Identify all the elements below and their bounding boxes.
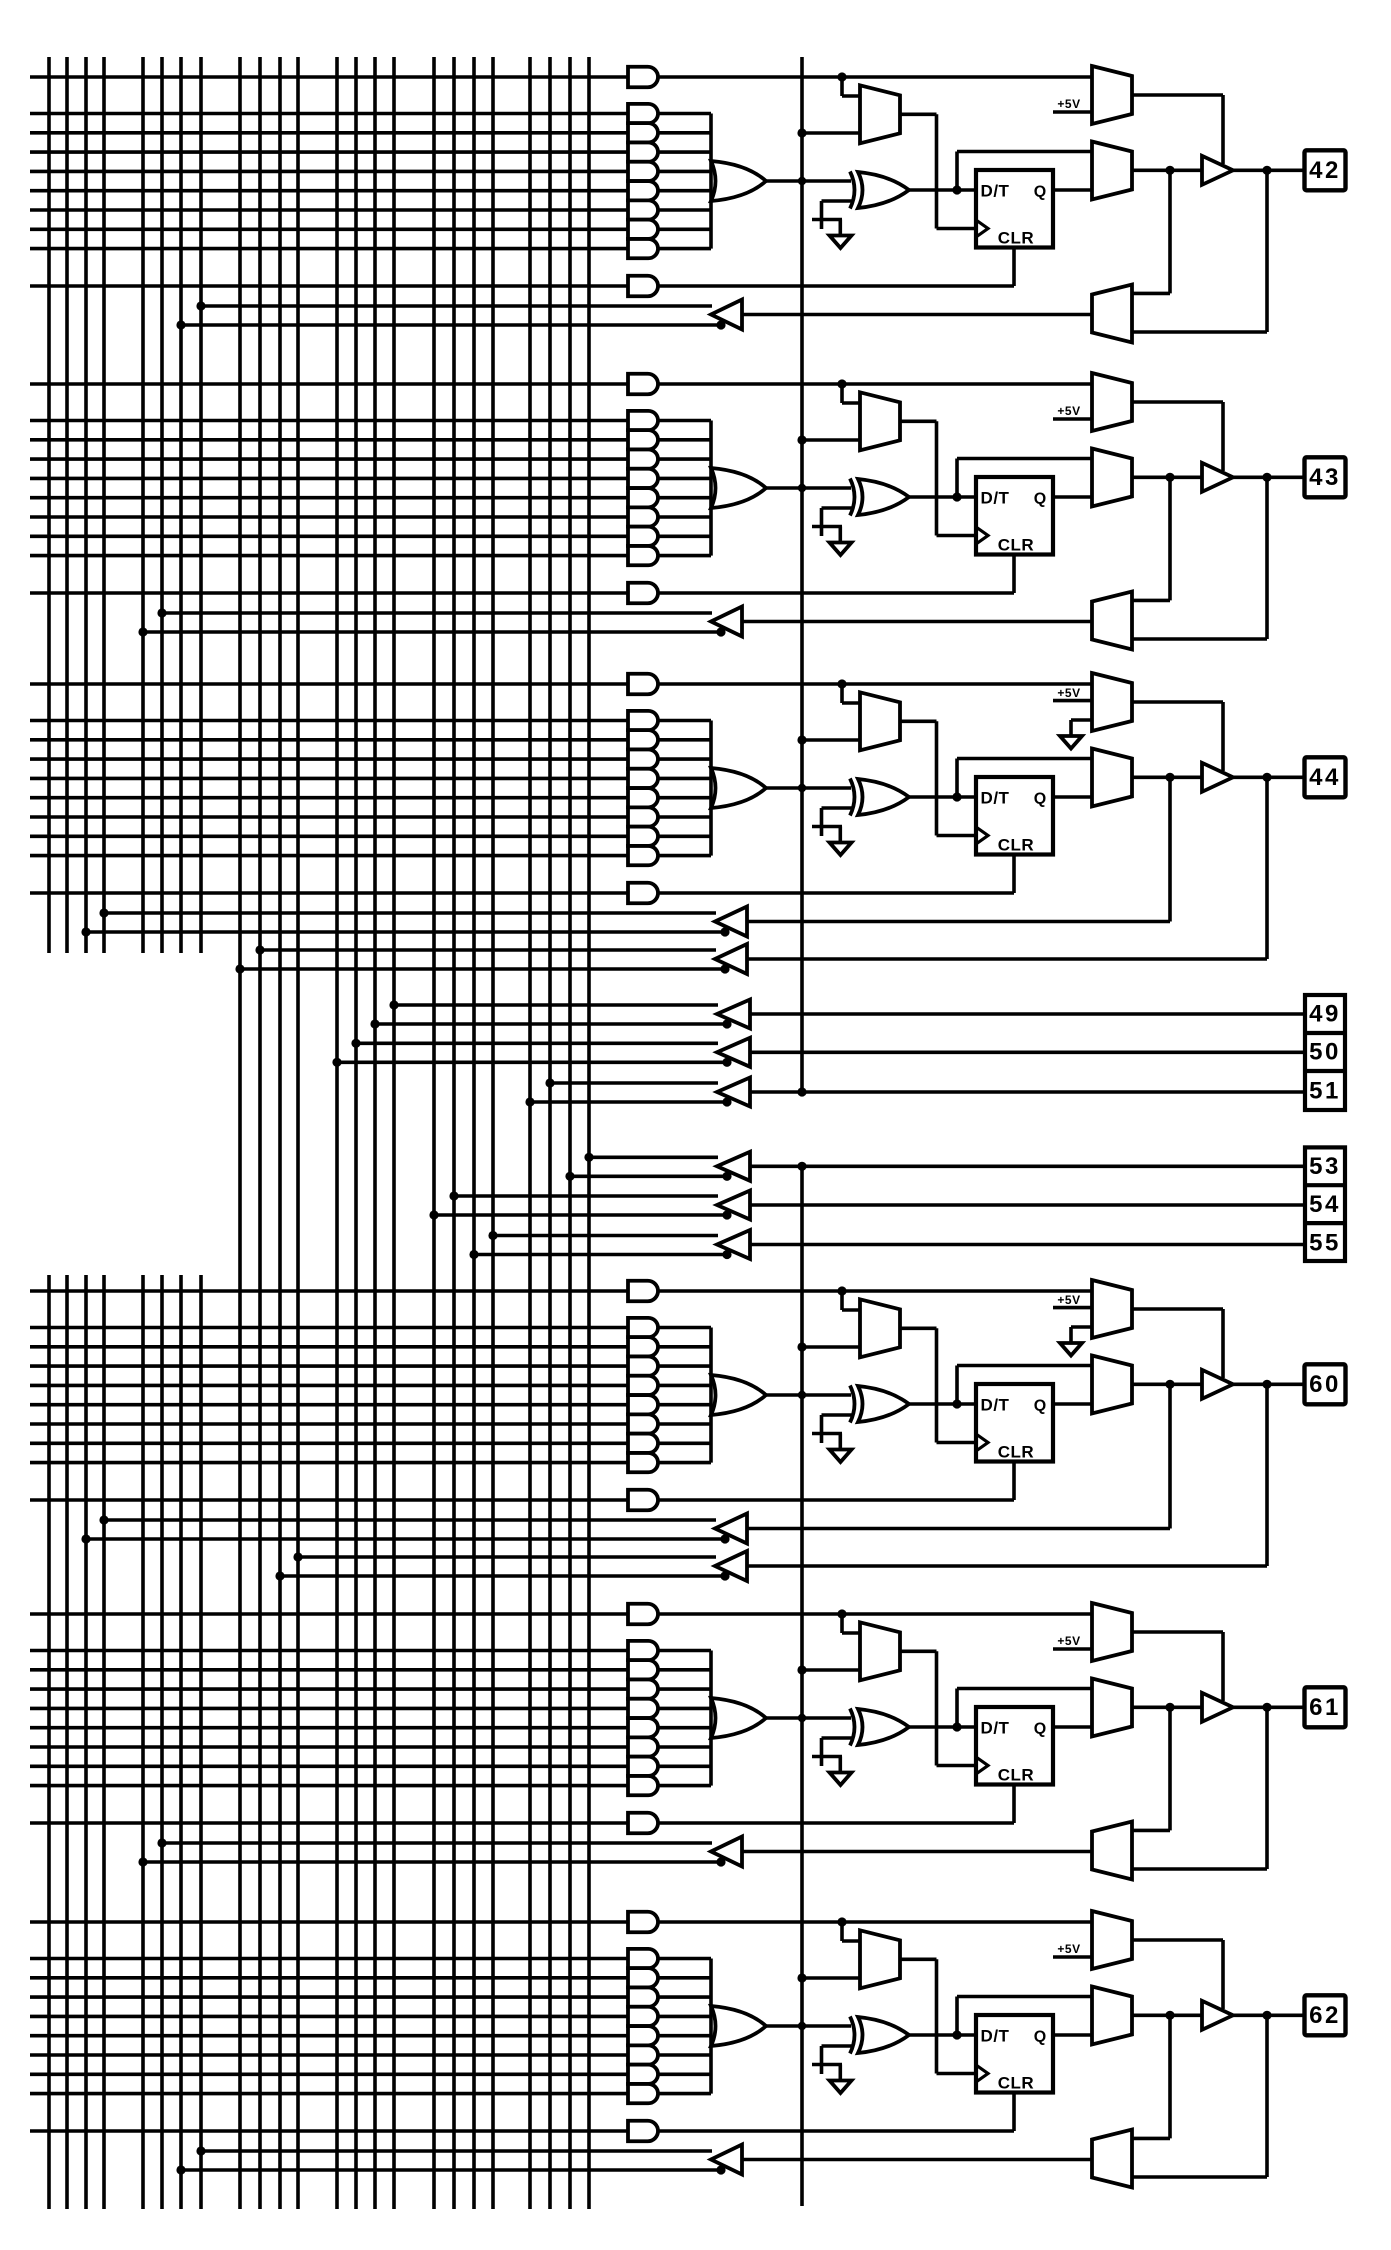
wire OR output to XOR (pin 44) <box>766 786 851 790</box>
wire product term row 4 (pin 61) <box>30 1707 628 1711</box>
array input column line x=86 (lower segment) <box>84 1275 88 2209</box>
svg-text:50: 50 <box>1309 1039 1341 1066</box>
input buffer (pin 54) <box>717 1191 750 1220</box>
wire Q output to output mux (pin 62) <box>1053 2033 1092 2037</box>
node clock bus tap (pin 60) <box>797 1342 806 1351</box>
wire product term row 5 (pin 62) <box>30 2034 628 2038</box>
node clock bus tap (pin 61) <box>797 1665 806 1674</box>
wire XOR output to D/T input (pin 44) <box>909 795 976 799</box>
wire clock bus to clock mux input (pin 62) <box>802 1976 860 1980</box>
clock mux (pin 61) <box>860 1622 900 1680</box>
feedback select mux (pin 61) <box>1092 1822 1132 1880</box>
pin box 42 <box>1305 150 1346 190</box>
svg-text:42: 42 <box>1309 157 1341 184</box>
XOR gate polarity (pin 42) <box>858 172 909 208</box>
array input column line x=356 <box>354 57 358 2209</box>
wire product term row 1 (pin 44) <box>30 719 628 723</box>
wire pin feedback complement row to column x=240 (pin 44) <box>240 967 727 971</box>
register feedback buffer (pin 60) <box>715 1514 747 1544</box>
wire clock mux output to flip-flop clock (pin 61) <box>900 1650 937 1654</box>
wire feedback complement row to column x=143 (pin 61) <box>143 1860 723 1864</box>
svg-text:53: 53 <box>1309 1153 1341 1180</box>
node clock bus driven by pin 51 <box>797 1087 806 1096</box>
wire clock bus to clock mux input (pin 61) <box>802 1668 860 1672</box>
wire clear term to CLR input (pin 62) <box>658 2129 1014 2133</box>
wire product term row 5 (pin 61) <box>30 1726 628 1730</box>
svg-text:+5V: +5V <box>1057 97 1080 111</box>
wire OE product term row (pin 62) <box>30 1920 628 1924</box>
wire product term row 7 (pin 42) <box>30 228 628 232</box>
wire AND output 2 to collector (pin 43) <box>658 438 711 442</box>
AND gate stack product terms 1-8 (pin 42) <box>628 104 658 123</box>
wire async clear row (pin 42) <box>30 284 628 288</box>
wire OE mux to buffer enable (pin 62) <box>1132 1938 1223 1942</box>
wire input pin 49 to buffer <box>750 1012 1304 1016</box>
node feedback branch (pin 60) <box>1165 1380 1174 1389</box>
wire OE-row branch to clock mux input (pin 44) <box>840 684 844 703</box>
wire AND output 2 to collector (pin 42) <box>658 131 711 135</box>
wire OE mux to buffer enable (pin 44) <box>1132 700 1223 704</box>
svg-text:60: 60 <box>1309 1371 1341 1398</box>
OR gate (pin 61) <box>711 1698 766 1738</box>
flip-flop U60 D/T register (pin 60) <box>976 1384 1053 1462</box>
input buffer (pin 51) <box>717 1078 750 1107</box>
svg-text:43: 43 <box>1309 464 1341 491</box>
OR gate (pin 44) <box>711 768 766 808</box>
wire product term row 2 (pin 61) <box>30 1668 628 1672</box>
wire input pin 55 to buffer <box>750 1243 1304 1247</box>
wire product term row 6 (pin 42) <box>30 208 628 212</box>
wire AND output 8 to collector (pin 42) <box>658 247 711 251</box>
feedback select mux (pin 42) <box>1092 285 1132 343</box>
wire buffer to pin (pin 62) <box>1233 2014 1304 2018</box>
wire feedback mux to feedback buffer (pin 43) <box>742 620 1092 624</box>
svg-text:Q: Q <box>1034 791 1046 808</box>
wire buffer to pin (pin 43) <box>1233 475 1304 479</box>
node pin feedback branch (pin 43) <box>1262 473 1271 482</box>
AND gate OE product term (pin 61) <box>628 1604 658 1625</box>
svg-text:CLR: CLR <box>998 229 1034 248</box>
output select mux (pin 60) <box>1092 1356 1132 1414</box>
output select mux (pin 43) <box>1092 449 1132 507</box>
svg-text:+5V: +5V <box>1057 1942 1080 1956</box>
svg-text:54: 54 <box>1309 1191 1341 1218</box>
svg-text:Q: Q <box>1034 491 1046 508</box>
ground option at OE mux (pin 60) <box>1071 1325 1092 1329</box>
+5V supply to OE mux (pin 42) <box>1053 110 1092 114</box>
node clock bus tap (pin 42) <box>797 128 806 137</box>
wire feedback true row to column x=201 (pin 42) <box>201 304 712 308</box>
wire product term row 5 (pin 42) <box>30 189 628 193</box>
XOR gate polarity (pin 62) <box>858 2017 909 2053</box>
array input column line x=49 (lower segment) <box>47 1275 51 2209</box>
ground symbol at XOR input (pin 62) <box>830 2081 852 2094</box>
svg-text:62: 62 <box>1309 2002 1341 2029</box>
wire clock mux output to flip-flop clock (pin 62) <box>900 1958 937 1962</box>
wire feedback true row to column x=201 (pin 62) <box>201 2149 712 2153</box>
wire async clear row (pin 60) <box>30 1498 628 1502</box>
flip-flop U42 D/T register (pin 42) <box>976 170 1053 248</box>
pin box group 49/50/51 <box>1305 995 1345 1110</box>
AND gate stack product terms 1-8 (pin 44) <box>628 711 658 730</box>
wire AND output 4 to collector (pin 44) <box>658 777 711 781</box>
flip-flop U44 D/T register (pin 44) <box>976 777 1053 855</box>
wire input true row to column x=493 (pin 55) <box>493 1234 718 1238</box>
wire output mux to tri-state buffer (pin 42) <box>1132 169 1202 173</box>
wire output mux to tri-state buffer (pin 44) <box>1132 775 1202 779</box>
wire internal feedback to feedback mux (pin 43) <box>1168 477 1172 600</box>
wire product term row 6 (pin 62) <box>30 2053 628 2057</box>
svg-text:CLR: CLR <box>998 1443 1034 1462</box>
wire OE product term row (pin 42) <box>30 75 628 79</box>
wire feedback true row to column x=162 (pin 43) <box>162 611 712 615</box>
wire OE-row branch to clock mux input (pin 60) <box>840 1291 844 1310</box>
output select mux (pin 44) <box>1092 749 1132 807</box>
wire AND output 4 to collector (pin 42) <box>658 170 711 174</box>
svg-text:CLR: CLR <box>998 2074 1034 2093</box>
wire output mux to tri-state buffer (pin 61) <box>1132 1706 1202 1710</box>
wire AND output 8 to collector (pin 62) <box>658 2092 711 2096</box>
node OR row at clock bus (pin 62) <box>798 2022 806 2030</box>
wire AND output 6 to collector (pin 44) <box>658 815 711 819</box>
wire OE term to output-enable mux (pin 43) <box>658 382 1092 386</box>
wire input complement row to column x=530 (pin 51) <box>530 1100 729 1104</box>
wire OE term to output-enable mux (pin 62) <box>658 1920 1092 1924</box>
wire input true row to column x=394 (pin 49) <box>394 1003 718 1007</box>
wire AND output 7 to collector (pin 60) <box>658 1442 711 1446</box>
output enable mux (pin 60) <box>1092 1280 1132 1338</box>
wire OE-row branch to clock mux input (pin 61) <box>840 1614 844 1633</box>
clock wedge of flip-flop (pin 44) <box>976 827 988 844</box>
svg-text:D/T: D/T <box>981 2027 1010 2046</box>
wire product term row 1 (pin 60) <box>30 1326 628 1330</box>
wire product term row 1 (pin 43) <box>30 419 628 423</box>
array input column line x=67 (lower segment) <box>65 1275 69 2209</box>
wire clear term to CLR input (pin 43) <box>658 591 1014 595</box>
wire pin feedback to feedback mux (pin 61) <box>1265 1707 1269 1869</box>
node pin feedback branch (pin 44) <box>1262 773 1271 782</box>
node D input / bypass branch (pin 62) <box>952 2030 961 2039</box>
output enable mux (pin 44) <box>1092 673 1132 731</box>
svg-text:51: 51 <box>1309 1078 1341 1105</box>
wire OR output to XOR (pin 61) <box>766 1716 851 1720</box>
AND gate async clear term (pin 44) <box>628 883 658 904</box>
wire clock bus to clock mux input (pin 43) <box>802 438 860 442</box>
AND gate stack product terms 1-8 (pin 43) <box>628 411 658 430</box>
wire OR output to XOR (pin 42) <box>766 179 851 183</box>
wire product term row 1 (pin 61) <box>30 1649 628 1653</box>
wire product term row 8 (pin 61) <box>30 1784 628 1788</box>
wire pin feedback row to column x=260 (pin 44) <box>260 948 716 952</box>
node D input / bypass branch (pin 60) <box>952 1399 961 1408</box>
AND gate async clear term (pin 43) <box>628 583 658 604</box>
wire product term row 5 (pin 44) <box>30 796 628 800</box>
wire register feedback row to column x=104 (pin 60) <box>104 1518 716 1522</box>
wire AND output 3 to collector (pin 60) <box>658 1364 711 1368</box>
wire input true row to column x=454 (pin 54) <box>454 1194 718 1198</box>
node feedback branch (pin 44) <box>1165 773 1174 782</box>
wire AND output 7 to collector (pin 61) <box>658 1765 711 1769</box>
svg-text:D/T: D/T <box>981 1396 1010 1415</box>
array input column line x=493 <box>491 57 495 2209</box>
wire registered-bypass to output mux (pin 43) <box>955 459 959 498</box>
feedback buffer (pin 43) <box>711 607 742 637</box>
wire AND output 1 to collector (pin 42) <box>658 112 711 116</box>
node feedback branch (pin 62) <box>1165 2011 1174 2020</box>
clock bus from pin 51 (upper half) <box>800 57 804 1092</box>
array input column line x=434 <box>432 57 436 2209</box>
wire AND output 2 to collector (pin 44) <box>658 738 711 742</box>
svg-text:CLR: CLR <box>998 836 1034 855</box>
clock mux (pin 42) <box>860 85 900 143</box>
wire OE product term row (pin 43) <box>30 382 628 386</box>
output select mux (pin 62) <box>1092 1987 1132 2045</box>
wire clock mux output to flip-flop clock (pin 43) <box>900 419 937 423</box>
wire AND output 2 to collector (pin 60) <box>658 1345 711 1349</box>
wire AND output 8 to collector (pin 43) <box>658 554 711 558</box>
wire product-term collector (pin 42) <box>709 114 713 249</box>
wire product term row 7 (pin 44) <box>30 834 628 838</box>
wire AND output 5 to collector (pin 60) <box>658 1403 711 1407</box>
AND gate stack product terms 1-8 (pin 61) <box>628 1641 658 1660</box>
wire XOR output to D/T input (pin 60) <box>909 1402 976 1406</box>
wire product term row 2 (pin 60) <box>30 1345 628 1349</box>
node clock bus tap (pin 44) <box>797 735 806 744</box>
wire Q output to output mux (pin 43) <box>1053 495 1092 499</box>
clock mux (pin 60) <box>860 1299 900 1357</box>
wire internal feedback to feedback mux (pin 42) <box>1168 170 1172 293</box>
wire XOR output to D/T input (pin 62) <box>909 2033 976 2037</box>
feedback buffer (pin 42) <box>711 300 742 330</box>
feedback buffer (pin 61) <box>711 1837 742 1867</box>
node OE/clock branch (pin 44) <box>837 679 846 688</box>
array input column line x=49 (upper segment) <box>47 57 51 953</box>
wire registered-bypass to output mux (pin 44) <box>955 759 959 798</box>
+5V supply to OE mux (pin 60) <box>1053 1306 1092 1310</box>
clock mux (pin 43) <box>860 392 900 450</box>
wire AND output 4 to collector (pin 61) <box>658 1707 711 1711</box>
wire XOR lower input to ground (pin 62) <box>822 2044 853 2048</box>
wire AND output 7 to collector (pin 43) <box>658 534 711 538</box>
clock wedge of flip-flop (pin 60) <box>976 1434 988 1451</box>
wire product term row 2 (pin 62) <box>30 1976 628 1980</box>
node OE/clock branch (pin 60) <box>837 1286 846 1295</box>
node D input / bypass branch (pin 61) <box>952 1722 961 1731</box>
+5V supply to OE mux (pin 61) <box>1053 1647 1092 1651</box>
wire clear term to CLR input (pin 60) <box>658 1498 1014 1502</box>
wire internal feedback down to feedback buffer (pin 60) <box>1168 1384 1172 1528</box>
wire AND output 2 to collector (pin 61) <box>658 1668 711 1672</box>
wire OE-row branch to clock mux input (pin 43) <box>840 384 844 403</box>
tri-state output buffer (pin 60) <box>1202 1370 1233 1399</box>
wire register feedback complement row to column x=86 (pin 44) <box>86 930 727 934</box>
svg-text:CLR: CLR <box>998 536 1034 555</box>
svg-text:61: 61 <box>1309 1694 1341 1721</box>
wire clear term to CLR input (pin 42) <box>658 284 1014 288</box>
wire AND output 6 to collector (pin 43) <box>658 515 711 519</box>
wire AND output 6 to collector (pin 61) <box>658 1745 711 1749</box>
wire AND output 6 to collector (pin 42) <box>658 208 711 212</box>
node OR row at clock bus (pin 60) <box>798 1391 806 1399</box>
wire product term row 8 (pin 60) <box>30 1461 628 1465</box>
wire product term row 7 (pin 61) <box>30 1765 628 1769</box>
+5V supply to OE mux (pin 44) <box>1053 699 1092 703</box>
ground option at OE mux (pin 44) <box>1071 718 1092 722</box>
wire OE term to output-enable mux (pin 60) <box>658 1289 1092 1293</box>
wire product term row 1 (pin 62) <box>30 1957 628 1961</box>
wire registered-bypass to output mux (pin 60) <box>955 1366 959 1405</box>
wire XOR lower input to ground (pin 60) <box>822 1413 853 1417</box>
wire OR output to XOR (pin 62) <box>766 2024 851 2028</box>
wire OE term to output-enable mux (pin 42) <box>658 75 1092 79</box>
pin box 62 <box>1305 1995 1346 2035</box>
wire pin feedback complement row to column x=280 (pin 60) <box>280 1574 727 1578</box>
array input column line x=260 <box>258 57 262 2209</box>
wire input true row to column x=356 (pin 50) <box>356 1042 718 1046</box>
node D input / bypass branch (pin 43) <box>952 492 961 501</box>
output select mux (pin 42) <box>1092 142 1132 200</box>
wire feedback mux to feedback buffer (pin 62) <box>742 2158 1092 2162</box>
wire OE mux to buffer enable (pin 61) <box>1132 1630 1223 1634</box>
wire pin feedback down to pin feedback buffer (pin 44) <box>1265 777 1269 959</box>
wire AND output 1 to collector (pin 60) <box>658 1326 711 1330</box>
clock mux (pin 44) <box>860 692 900 750</box>
wire product-term collector (pin 62) <box>709 1959 713 2094</box>
pin feedback buffer (pin 44) <box>715 944 747 974</box>
wire output mux to tri-state buffer (pin 62) <box>1132 2014 1202 2018</box>
svg-text:49: 49 <box>1309 1001 1341 1028</box>
wire buffer to pin (pin 42) <box>1233 169 1304 173</box>
wire OE term to output-enable mux (pin 44) <box>658 682 1092 686</box>
pin box 61 <box>1305 1687 1346 1727</box>
wire async clear row (pin 62) <box>30 2129 628 2133</box>
wire AND output 1 to collector (pin 61) <box>658 1649 711 1653</box>
node OE/clock branch (pin 62) <box>837 1917 846 1926</box>
wire buffer to pin (pin 61) <box>1233 1706 1304 1710</box>
wire product term row 3 (pin 43) <box>30 457 628 461</box>
wire feedback mux to feedback buffer (pin 61) <box>742 1850 1092 1854</box>
clock wedge of flip-flop (pin 61) <box>976 1757 988 1774</box>
wire clock bus to clock mux input (pin 60) <box>802 1345 860 1349</box>
AND gate async clear term (pin 42) <box>628 276 658 297</box>
wire product term row 6 (pin 60) <box>30 1422 628 1426</box>
node D input / bypass branch (pin 42) <box>952 185 961 194</box>
svg-text:55: 55 <box>1309 1230 1341 1257</box>
clock wedge of flip-flop (pin 43) <box>976 527 988 544</box>
wire feedback complement row to column x=181 (pin 62) <box>181 2168 723 2172</box>
wire Q output to output mux (pin 42) <box>1053 188 1092 192</box>
wire buffer to pin (pin 60) <box>1233 1383 1304 1387</box>
wire AND output 6 to collector (pin 62) <box>658 2053 711 2057</box>
AND gate stack product terms 1-8 (pin 62) <box>628 1949 658 1968</box>
wire async clear row (pin 43) <box>30 591 628 595</box>
wire AND output 5 to collector (pin 42) <box>658 189 711 193</box>
wire registered-bypass to output mux (pin 61) <box>955 1689 959 1728</box>
wire product-term collector (pin 43) <box>709 421 713 556</box>
svg-text:D/T: D/T <box>981 1719 1010 1738</box>
wire AND output 8 to collector (pin 44) <box>658 854 711 858</box>
wire AND output 4 to collector (pin 43) <box>658 477 711 481</box>
AND gate OE product term (pin 44) <box>628 674 658 695</box>
tri-state output buffer (pin 44) <box>1202 763 1233 792</box>
wire AND output 5 to collector (pin 44) <box>658 796 711 800</box>
wire clock mux output to flip-flop clock (pin 44) <box>900 719 937 723</box>
flip-flop U62 D/T register (pin 62) <box>976 2015 1053 2093</box>
node OE/clock branch (pin 43) <box>837 379 846 388</box>
svg-text:+5V: +5V <box>1057 686 1080 700</box>
wire clear term to CLR input (pin 61) <box>658 1821 1014 1825</box>
array input column line x=162 (upper segment) <box>160 57 164 953</box>
wire AND output 5 to collector (pin 43) <box>658 496 711 500</box>
pin box group 53/54/55 <box>1305 1147 1345 1261</box>
wire XOR lower input to ground (pin 61) <box>822 1736 853 1740</box>
wire product term row 4 (pin 60) <box>30 1384 628 1388</box>
wire AND output 2 to collector (pin 62) <box>658 1976 711 1980</box>
node D input / bypass branch (pin 44) <box>952 792 961 801</box>
wire product term row 5 (pin 60) <box>30 1403 628 1407</box>
output enable mux (pin 43) <box>1092 373 1132 431</box>
wire product term row 4 (pin 62) <box>30 2015 628 2019</box>
output enable mux (pin 42) <box>1092 66 1132 124</box>
wire XOR output to D/T input (pin 61) <box>909 1725 976 1729</box>
tri-state output buffer (pin 62) <box>1202 2001 1233 2030</box>
wire product term row 2 (pin 42) <box>30 131 628 135</box>
wire registered-bypass to output mux (pin 62) <box>955 1997 959 2036</box>
XOR gate polarity (pin 44) <box>858 779 909 815</box>
wire XOR output to D/T input (pin 42) <box>909 188 976 192</box>
XOR gate polarity (pin 60) <box>858 1386 909 1422</box>
array input column line x=570 <box>568 57 572 2209</box>
wire AND output 5 to collector (pin 61) <box>658 1726 711 1730</box>
array input column line x=337 <box>335 57 339 2209</box>
array input column line x=143 (lower segment) <box>141 1275 145 2209</box>
svg-text:Q: Q <box>1034 184 1046 201</box>
wire feedback true row to column x=162 (pin 61) <box>162 1841 712 1845</box>
svg-text:+5V: +5V <box>1057 404 1080 418</box>
ground symbol at XOR input (pin 61) <box>830 1773 852 1786</box>
input buffer (pin 50) <box>717 1038 750 1067</box>
svg-text:D/T: D/T <box>981 789 1010 808</box>
wire pin feedback down to pin feedback buffer (pin 60) <box>1265 1384 1269 1566</box>
AND gate OE product term (pin 43) <box>628 374 658 395</box>
clock wedge of flip-flop (pin 62) <box>976 2065 988 2082</box>
wire product-term collector (pin 44) <box>709 721 713 856</box>
wire output mux to tri-state buffer (pin 60) <box>1132 1383 1202 1387</box>
+5V supply to OE mux (pin 43) <box>1053 417 1092 421</box>
tri-state output buffer (pin 61) <box>1202 1693 1233 1722</box>
wire input pin 51 to buffer <box>750 1090 1304 1094</box>
array input column line x=298 <box>296 57 300 2209</box>
+5V supply to OE mux (pin 62) <box>1053 1955 1092 1959</box>
wire AND output 1 to collector (pin 44) <box>658 719 711 723</box>
wire product term row 4 (pin 42) <box>30 170 628 174</box>
ground symbol at XOR input (pin 43) <box>830 543 852 556</box>
wire product term row 8 (pin 62) <box>30 2092 628 2096</box>
wire product term row 3 (pin 44) <box>30 757 628 761</box>
wire AND output 4 to collector (pin 60) <box>658 1384 711 1388</box>
wire AND output 3 to collector (pin 42) <box>658 150 711 154</box>
AND gate async clear term (pin 61) <box>628 1813 658 1834</box>
pin box 44 <box>1305 757 1346 797</box>
array input column line x=162 (lower segment) <box>160 1275 164 2209</box>
wire product term row 1 (pin 42) <box>30 112 628 116</box>
wire OE product term row (pin 44) <box>30 682 628 686</box>
node pin feedback branch (pin 61) <box>1262 1703 1271 1712</box>
array input column line x=143 (upper segment) <box>141 57 145 953</box>
node OE/clock branch (pin 42) <box>837 72 846 81</box>
wire OE-row branch to clock mux input (pin 42) <box>840 77 844 96</box>
ground symbol at XOR input (pin 60) <box>830 1450 852 1463</box>
